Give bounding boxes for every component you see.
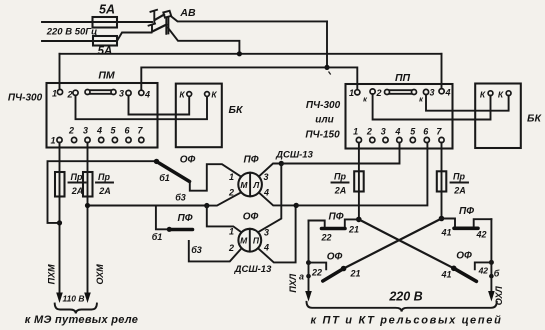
node 42 OF right on b-wire	[489, 260, 494, 265]
svg-text:2А: 2А	[453, 186, 466, 196]
PM top terminal 1	[57, 89, 62, 94]
svg-text:5А: 5А	[98, 46, 113, 58]
PM bottom terminals 1-7	[57, 137, 144, 142]
svg-text:1: 1	[52, 89, 57, 99]
svg-text:ПЧ-150: ПЧ-150	[305, 130, 340, 141]
svg-text:б: б	[494, 269, 500, 279]
wire b3 lower stub to lower motor pin 2	[189, 241, 242, 261]
node PHM junction	[57, 220, 62, 225]
brace right	[307, 302, 497, 312]
node b1 lower PF switch	[167, 227, 172, 232]
label Pr/2A fuse4	[453, 172, 466, 196]
arrow OHM	[84, 293, 91, 304]
node 41 PF right	[439, 216, 445, 222]
arrow OHL	[488, 291, 495, 302]
wire 22 stub OF left	[309, 263, 327, 270]
fuse Pr1 2A	[55, 172, 65, 197]
svg-text:ОФ: ОФ	[243, 212, 259, 223]
svg-text:к ПТ и КТ рельсовых цепей: к ПТ и КТ рельсовых цепей	[310, 315, 502, 327]
svg-text:2А: 2А	[334, 186, 347, 196]
node B2 junction	[294, 203, 299, 208]
wire bus N left riser to PM terminal 1	[59, 54, 61, 90]
svg-text:2А: 2А	[98, 186, 111, 196]
switch AB pole 2 blade	[153, 25, 167, 32]
svg-text:К: К	[211, 90, 217, 100]
labels PM bottom 1-7	[50, 126, 143, 146]
jumper strap PM	[85, 90, 116, 95]
svg-text:5А: 5А	[99, 3, 115, 17]
svg-text:4: 4	[144, 90, 150, 100]
PP top terminal 1	[355, 90, 360, 95]
svg-text:АВ: АВ	[179, 7, 196, 19]
wire PP terminal 2 to BK right K1	[373, 94, 491, 119]
svg-text:2: 2	[366, 127, 372, 137]
switch AB breaker box	[163, 11, 171, 18]
labels lower motor pins	[228, 227, 269, 254]
svg-text:к МЭ путевых реле: к МЭ путевых реле	[25, 314, 138, 326]
svg-text:БК: БК	[229, 104, 244, 116]
svg-text:БК: БК	[527, 113, 542, 125]
wire PP bottom terminal 1 down through fuse Pr3	[358, 143, 360, 220]
wire 22 stub PF left	[309, 221, 325, 227]
svg-text:3: 3	[381, 127, 386, 137]
svg-text:1: 1	[50, 136, 55, 146]
svg-text:1: 1	[229, 227, 234, 237]
svg-text:К: К	[498, 90, 504, 100]
wire L2 input 220V phase B	[42, 40, 117, 42]
fuse Pr4 2A	[437, 171, 447, 191]
node A junction	[324, 65, 329, 70]
brace left	[55, 304, 97, 314]
BK right terminal K1	[488, 91, 493, 96]
wire node D down to lower motor pin 3	[258, 164, 281, 233]
node B1 junction	[204, 203, 209, 208]
fuse Pr2 2A	[83, 172, 93, 197]
svg-text:ПФ: ПФ	[329, 212, 344, 223]
wire row A from PHM riser	[48, 161, 157, 223]
labels PP bottom 1-7	[353, 127, 442, 137]
block BK left box	[176, 84, 222, 148]
label Pr/2A right	[98, 172, 111, 196]
fuse F2 5A	[93, 36, 117, 46]
block PM box	[47, 83, 158, 148]
contact blade OF left open	[323, 269, 344, 282]
svg-text:ДСШ-13: ДСШ-13	[275, 150, 313, 161]
svg-text:К: К	[179, 90, 185, 100]
svg-text:Л: Л	[252, 180, 259, 190]
contact blade 21-22 PF left closed	[322, 227, 346, 231]
labels upper motor pins	[228, 172, 269, 198]
wire fuse F2 output riser to switch	[117, 33, 152, 42]
svg-text:1: 1	[349, 88, 354, 98]
svg-text:Пр: Пр	[334, 172, 346, 182]
block BK right box	[475, 84, 521, 149]
svg-text:3: 3	[429, 88, 434, 98]
svg-text:б1: б1	[152, 232, 163, 242]
wire AB pole 2 output to bus N	[168, 28, 240, 53]
node D junction	[279, 161, 284, 166]
wire PHM vertical from PM bottom terminal 1	[59, 143, 61, 297]
svg-text:К: К	[480, 90, 486, 100]
contact blade OF right open	[454, 268, 477, 281]
wire PP terminal 3 to BK right K2	[426, 95, 509, 111]
wire PM terminal 4 to node A	[141, 67, 327, 90]
wire 42 stub PF right	[474, 219, 492, 226]
wire node A to PP terminal 1	[327, 67, 357, 89]
BK left terminal K2	[205, 92, 210, 97]
node row B start	[85, 203, 90, 208]
BK left terminal K1	[187, 92, 192, 97]
PP bottom terminals 1-7	[356, 137, 444, 142]
svg-text:22: 22	[320, 233, 331, 243]
wire bus N right riser to PP terminal 4	[441, 54, 443, 89]
svg-text:или: или	[315, 115, 333, 126]
wire row B right to PP bottom terminal 6	[296, 143, 427, 206]
PP top terminal 2	[370, 89, 375, 94]
wire upper motor pin 4 to node B2	[259, 193, 296, 206]
svg-text:22: 22	[311, 268, 322, 278]
relay element ML upper (DSSh-13)	[238, 173, 262, 197]
switch AB pole 1 fixed contact stub	[151, 10, 158, 22]
svg-text:220 В 50Гц: 220 В 50Гц	[46, 27, 98, 38]
svg-text:41: 41	[440, 228, 451, 238]
fuse Pr3 2A	[354, 171, 364, 191]
svg-text:3: 3	[119, 89, 124, 99]
svg-text:21: 21	[348, 225, 359, 235]
wire bus N horizontal	[60, 53, 442, 55]
node a tap	[306, 274, 311, 279]
svg-text:б3: б3	[175, 193, 186, 203]
svg-text:ОХЛ: ОХЛ	[494, 286, 504, 306]
switch AB pole 2 fixed contact stub	[149, 24, 155, 32]
wire row B left (OHM bus)	[88, 205, 207, 207]
jumper strap PP	[385, 90, 417, 95]
svg-text:М: М	[240, 236, 248, 246]
svg-text:4: 4	[263, 243, 269, 253]
svg-text:б1: б1	[159, 173, 170, 183]
svg-text:42: 42	[475, 230, 486, 240]
node 22 OF left on a-wire	[306, 260, 311, 265]
svg-text:2: 2	[68, 126, 74, 136]
node b tap	[489, 274, 494, 279]
svg-text:2: 2	[228, 243, 234, 253]
switch OF blade b1-b3 closed	[159, 163, 190, 182]
svg-text:ПФ: ПФ	[244, 155, 259, 166]
relay element MP lower (DSSh-13)	[238, 229, 261, 252]
wire X diagonal 41PF to 21OF	[344, 219, 442, 269]
PM top terminal 3	[126, 90, 131, 95]
svg-text:ПП: ПП	[395, 72, 411, 84]
label PCh-300 ili PCh-150	[305, 100, 340, 141]
wire lower motor pin 1 to node B1	[207, 206, 242, 233]
svg-text:а: а	[299, 272, 304, 282]
node 21 OF left	[341, 266, 347, 272]
PP top terminal 4	[439, 89, 444, 94]
svg-text:ДСШ-13: ДСШ-13	[234, 264, 272, 275]
switch AB pole 1 blade	[155, 15, 164, 20]
svg-text:2: 2	[375, 88, 381, 98]
svg-text:П: П	[253, 236, 260, 246]
wire riser to lower PF switch b1	[156, 206, 167, 230]
svg-text:42: 42	[478, 265, 489, 275]
wire AB pole 1 output	[171, 16, 327, 21]
svg-text:3: 3	[263, 172, 268, 182]
svg-text:1: 1	[353, 127, 358, 137]
svg-text:4: 4	[444, 88, 450, 98]
svg-text:Пр: Пр	[71, 172, 83, 182]
label Pr/2A fuse3	[334, 172, 347, 196]
svg-text:М: М	[240, 180, 248, 190]
svg-text:ПЧ-300: ПЧ-300	[306, 100, 341, 111]
svg-text:2А: 2А	[71, 186, 84, 196]
svg-text:ПМ: ПМ	[98, 70, 115, 82]
wire node D to PP bottom terminal 4	[281, 143, 399, 164]
svg-text:ПФ: ПФ	[459, 206, 474, 217]
svg-text:ПХМ: ПХМ	[47, 264, 57, 284]
PM top terminal 2	[73, 90, 78, 95]
svg-text:ПФ: ПФ	[178, 213, 193, 224]
node bus N junction	[237, 51, 242, 56]
node 21 PF left	[356, 217, 362, 223]
PP top terminal 3	[423, 89, 428, 94]
arrow PHL	[305, 291, 312, 302]
wire 42 stub OF right	[475, 262, 492, 269]
svg-text:4: 4	[96, 126, 102, 136]
node 41 OF right	[451, 266, 457, 272]
fuse F1 5A	[93, 17, 118, 28]
wire 41 step	[442, 219, 456, 228]
wire PM terminal 2 to BK K2	[76, 95, 208, 119]
svg-text:ОХМ: ОХМ	[95, 264, 105, 285]
svg-text:ОФ: ОФ	[180, 155, 196, 166]
wire PP bottom terminal 7 down through fuse Pr4	[441, 143, 443, 219]
wire X diagonal 21PF to 41OF	[359, 219, 454, 268]
switch AB mechanical link	[166, 17, 168, 33]
wire upper motor pin 2 to node B1	[207, 193, 241, 206]
wire b3 stub to upper motor pin 1	[190, 164, 241, 191]
block PP box	[346, 84, 453, 149]
svg-text:ОФ: ОФ	[327, 252, 343, 263]
svg-text:2: 2	[66, 90, 72, 100]
svg-text:1: 1	[229, 172, 234, 182]
svg-text:21: 21	[349, 269, 360, 279]
wire PHL output vertical	[308, 221, 310, 296]
wire OHL output vertical	[490, 219, 492, 295]
svg-text:ПХЛ: ПХЛ	[288, 273, 298, 292]
switch PF blade open	[170, 228, 193, 232]
label Pr/2A left	[71, 172, 84, 196]
svg-text:41: 41	[440, 270, 451, 280]
svg-text:б3: б3	[191, 245, 202, 255]
svg-text:ОФ: ОФ	[456, 251, 472, 262]
svg-text:110 В: 110 В	[62, 294, 84, 304]
wire 21 step	[345, 219, 359, 227]
node b1 upper OF switch	[154, 159, 159, 164]
contact blade 41-42 PF right closed	[454, 227, 478, 231]
PM top terminal 4	[139, 90, 144, 95]
svg-text:Пр: Пр	[453, 172, 465, 182]
svg-text:ПЧ-300: ПЧ-300	[8, 93, 43, 104]
wire lower motor pin 4 to node B2	[258, 205, 296, 262]
svg-text:4: 4	[394, 127, 400, 137]
BK right terminal K2	[506, 91, 511, 96]
svg-text:3: 3	[83, 126, 88, 136]
svg-text:3: 3	[264, 228, 269, 238]
svg-text:Пр: Пр	[98, 172, 110, 182]
wire OHM vertical from PM bottom terminal 3	[87, 143, 89, 297]
wire PM terminal 3 to BK K1	[129, 96, 190, 115]
arrow PHM	[56, 293, 63, 304]
wire L1 riser down to node A	[326, 21, 328, 67]
svg-text:220 В: 220 В	[388, 290, 422, 304]
wire upper motor pin 3 to node D	[259, 164, 281, 177]
wire L1 input 220V phase A	[42, 21, 152, 23]
